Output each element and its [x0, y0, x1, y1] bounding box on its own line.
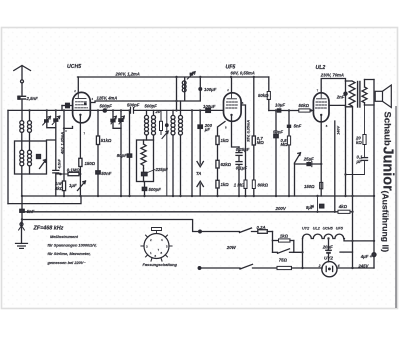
svg-text:ZF=468 kHz: ZF=468 kHz — [33, 225, 64, 231]
wire UL2 pin right down — [334, 121, 336, 212]
wire UF5 cathode chain x217.5 — [218, 122, 226, 197]
svg-text:8μF: 8μF — [306, 205, 314, 210]
capacitor 500pF series in grid line — [103, 108, 108, 113]
svg-text:1kΩ: 1kΩ — [221, 138, 230, 143]
svg-text:1μF: 1μF — [69, 183, 77, 188]
fuse 0.2A — [258, 230, 273, 234]
wire UY2 cathode right — [337, 267, 374, 269]
svg-text:500pF: 500pF — [127, 102, 140, 107]
wire UF5 bottom to tone caps — [232, 115, 240, 147]
resistor 150 Ohm UL2 cathode — [320, 182, 323, 188]
ground bus y196 — [22, 195, 374, 197]
output transformer secondary zigzag — [362, 80, 367, 106]
svg-text:0,1MΩ: 0,1MΩ — [67, 167, 81, 172]
wires IFT2 — [173, 77, 181, 196]
resistor 20k vertical — [363, 104, 366, 145]
variable capacitor gang C1 — [110, 110, 121, 128]
svg-text:80kΩ: 80kΩ — [258, 182, 269, 187]
tube UF5 envelope — [224, 93, 242, 122]
svg-text:UF5: UF5 — [336, 226, 344, 230]
svg-text:Fassungschaltung: Fassungschaltung — [143, 262, 178, 267]
resistor 51k on x98 — [96, 136, 99, 145]
resistor 50k horizontal — [299, 109, 310, 112]
svg-text:50nF: 50nF — [101, 171, 111, 176]
svg-text:230V, 70mA: 230V, 70mA — [320, 72, 344, 77]
IF can box — [137, 140, 154, 182]
wire x287.5 vertical with resistor 0.8M — [287, 111, 291, 197]
wire x345.5 down — [345, 107, 347, 196]
inductor antenna coil winding 2 — [28, 121, 32, 133]
svg-text:2: 2 — [318, 264, 321, 268]
IF windings pair A — [145, 115, 149, 135]
inductor antenna coil winding 1 — [20, 121, 24, 133]
capacitor 4nF blob x166.8 — [165, 110, 169, 196]
ground bus y203.6 — [8, 196, 81, 204]
wire x129.5 vertical — [131, 110, 133, 113]
wire right rail x374 — [373, 80, 375, 269]
svg-text:0,1μF: 0,1μF — [236, 165, 248, 170]
svg-text:150Ω: 150Ω — [85, 161, 96, 166]
wire UL2 anode riser and 230V bus — [321, 79, 345, 94]
tube UL2 internals — [316, 93, 328, 116]
svg-text:4kΩ: 4kΩ — [54, 186, 64, 191]
anode tank loop — [177, 72, 203, 101]
wire coil bottoms into box — [22, 132, 30, 150]
svg-text:0,25μF: 0,25μF — [236, 147, 250, 152]
svg-text:50kΩ: 50kΩ — [258, 93, 269, 98]
mains bottom wire — [198, 267, 240, 270]
wires windings A to box — [147, 110, 154, 140]
potentiometer arrow — [78, 181, 86, 191]
svg-text:51kΩ: 51kΩ — [101, 138, 112, 143]
svg-text:TA: TA — [196, 171, 201, 176]
capacitor 10uF electrolytic — [277, 108, 282, 112]
svg-text:UY2: UY2 — [302, 226, 310, 230]
svg-text:100μF: 100μF — [204, 87, 217, 92]
resistor 150 Ohm on x81 — [79, 158, 82, 166]
resistor 62k — [216, 160, 219, 168]
oscillator coil shield box — [15, 141, 47, 174]
trimmer capacitor T1 — [43, 110, 56, 127]
tube pin numbers — [74, 88, 328, 136]
svg-text:62kΩ: 62kΩ — [221, 162, 232, 167]
wire UF5 anode riser — [231, 77, 233, 93]
svg-text:25μF: 25μF — [303, 157, 314, 162]
resistor oval lower on x253.8 — [252, 180, 255, 189]
core slug — [37, 155, 41, 159]
svg-text:500pF: 500pF — [145, 104, 158, 109]
svg-text:5nF: 5nF — [27, 209, 35, 214]
svg-text:für Spannungen 10000Ω/V,: für Spannungen 10000Ω/V, — [48, 243, 97, 248]
capacitor 5nF blob left — [20, 209, 24, 212]
svg-text:MΩ: MΩ — [257, 140, 265, 145]
mains switch top blade — [240, 228, 258, 233]
svg-text:gemessen bei 220V~: gemessen bei 220V~ — [47, 260, 87, 265]
svg-text:2,5nF: 2,5nF — [26, 96, 39, 101]
wire left rail — [7, 110, 9, 203]
svg-text:200V: 200V — [275, 206, 287, 211]
wire grid line y110.4 — [8, 109, 223, 111]
svg-text:Meßinstrument: Meßinstrument — [50, 234, 79, 239]
ground bus y219.5 — [24, 220, 201, 232]
wire x246.5 vertical with resistor oval — [241, 105, 247, 196]
resistor 4k vertical small — [62, 181, 65, 191]
svg-text:4kΩ: 4kΩ — [338, 204, 348, 209]
wire below IF box with 500pF blob — [142, 182, 146, 197]
svg-text:kΩ: kΩ — [356, 140, 362, 145]
tube UCH5 internals — [75, 93, 88, 116]
tone switch blade — [295, 153, 301, 196]
svg-text:10μF: 10μF — [275, 103, 285, 108]
svg-text:125V, 4mA: 125V, 4mA — [97, 95, 118, 100]
resistor vertical x161 — [160, 110, 169, 138]
heater labels UY2 UL2 UCH5 UF5 — [302, 226, 344, 230]
trimmer capacitor T2 — [47, 110, 61, 196]
svg-text:200V, 1,2mA: 200V, 1,2mA — [115, 72, 140, 77]
svg-text:Junior: Junior — [380, 147, 396, 192]
svg-text:75Ω: 75Ω — [279, 257, 288, 262]
socket pin numbers — [146, 238, 168, 258]
resistor 75 Ohm — [277, 266, 322, 269]
svg-text:100μF: 100μF — [203, 104, 216, 109]
tube UL2 envelope — [313, 93, 329, 122]
wire antenna down — [21, 83, 23, 96]
wire UL2 grid line y110.5 — [269, 110, 314, 112]
svg-text:245V: 245V — [357, 263, 369, 268]
wire ground drop left — [21, 196, 23, 222]
capacitor 2nF stub — [329, 81, 347, 107]
resistor 4k on bus — [338, 210, 350, 213]
svg-text:4: 4 — [337, 264, 340, 268]
svg-text:500pF: 500pF — [149, 187, 162, 192]
svg-text:2nF: 2nF — [336, 95, 345, 100]
capacitor 100uF blob on grid line — [206, 108, 211, 112]
wire UL2 cathode down — [320, 115, 322, 196]
anode bus 200V y77 — [78, 76, 269, 78]
wire fuse to dropper — [272, 232, 274, 241]
svg-text:35V, 0,35mA: 35V, 0,35mA — [247, 120, 251, 142]
capacitor 0.25uF — [236, 147, 242, 161]
svg-text:225pF: 225pF — [155, 167, 169, 172]
inductor tank coil bumps — [182, 81, 186, 92]
svg-text:50kΩ: 50kΩ — [299, 103, 310, 108]
capacitor 20uF — [326, 239, 331, 262]
inductor oscillator winding 1 — [20, 150, 24, 166]
wire secondary to speaker — [365, 80, 375, 106]
TA pickup jack — [197, 162, 203, 197]
svg-text:50pF: 50pF — [273, 130, 283, 135]
wire UCH5 triode grid pin to x66 — [64, 110, 73, 196]
capacitor 500pF second series — [130, 108, 134, 114]
wire UCH5 hexode anode 125V line — [90, 101, 176, 103]
svg-text:4μF +: 4μF + — [360, 254, 373, 259]
capacitor 50nF blob on x98 — [96, 171, 100, 174]
svg-text:UCH5: UCH5 — [323, 226, 334, 230]
svg-text:20: 20 — [155, 109, 161, 114]
wire UCH5 anode riser — [77, 77, 79, 93]
wire x192 vertical — [191, 110, 193, 196]
dropper resistor 1k with bypass switch — [273, 239, 294, 253]
mains top wire — [199, 230, 240, 233]
svg-text:5nF: 5nF — [294, 124, 302, 129]
page fold dark edge right — [395, 106, 397, 308]
capacitor 80pF blob on x129.5 — [127, 154, 131, 157]
svg-text:UL2: UL2 — [313, 226, 321, 230]
tube UCH5 envelope — [73, 92, 91, 122]
svg-text:20μF: 20μF — [322, 245, 333, 250]
resistor 0.1M horizontal — [56, 172, 81, 175]
wire coil bottoms to bus — [22, 166, 30, 196]
transformer core — [358, 82, 360, 108]
ground symbol — [16, 222, 28, 248]
svg-text:150Ω: 150Ω — [304, 184, 315, 189]
svg-text:Schaub: Schaub — [382, 112, 393, 147]
svg-text:μF: μF — [356, 159, 363, 164]
antenna — [14, 66, 31, 83]
capacitor 225pF in box — [142, 169, 156, 182]
rotated label wire 40V — [65, 130, 67, 132]
resistor 1k lower — [216, 180, 219, 188]
svg-text:(Ausführung II): (Ausführung II) — [381, 191, 391, 253]
wire x276 vertical with capacitor 50pF — [274, 111, 278, 197]
wire coil2 top to grid line — [29, 110, 31, 120]
wire x268.8 riser with resistor 50k — [267, 77, 270, 111]
resistor 1k — [216, 136, 219, 145]
wire x253.8 vertical from bus — [253, 77, 255, 196]
resistor 0.7M — [252, 136, 255, 145]
wire antenna cap to coil — [21, 99, 23, 120]
wire UCH5 cathode down x81 — [79, 115, 81, 196]
svg-text:für Ströme, Mavometer,: für Ströme, Mavometer, — [48, 251, 91, 256]
svg-text:1kΩ: 1kΩ — [221, 182, 230, 187]
svg-text:μF: μF — [204, 127, 211, 132]
svg-text:60V, 0,55mA: 60V, 0,55mA — [231, 71, 255, 76]
capacitor 200uF branch — [198, 110, 202, 164]
capacitor 0.1uF — [236, 162, 242, 196]
inductor IF coil zigzag in box — [141, 140, 146, 169]
capacitor 8uF electrolytic on cathode — [311, 196, 324, 212]
mains switch bottom blade — [240, 264, 277, 269]
svg-text:1kΩ: 1kΩ — [280, 233, 289, 238]
variable capacitor gang C2 — [118, 110, 124, 196]
tube socket diagram — [141, 228, 172, 262]
wire x98 vertical — [97, 110, 99, 196]
svg-text:1 MΩ: 1 MΩ — [234, 182, 245, 187]
ground bus y211.8 — [21, 211, 353, 213]
svg-text:140V: 140V — [337, 125, 341, 134]
capacitor 25uF cathode bypass — [295, 161, 322, 166]
svg-text:0,2A: 0,2A — [257, 225, 266, 230]
trimmer arrow in box — [40, 160, 47, 169]
svg-text:UY2: UY2 — [324, 256, 333, 261]
svg-text:UCH5: UCH5 — [67, 64, 81, 70]
svg-text:MΩ: MΩ — [281, 142, 289, 147]
svg-text:UF5: UF5 — [226, 65, 236, 71]
tube UF5 internals — [226, 93, 238, 116]
svg-text:80pF: 80pF — [117, 153, 127, 158]
tube UY2 rectifier — [322, 262, 337, 277]
svg-text:500pF: 500pF — [100, 104, 113, 109]
wire y241.4 to right rail — [340, 251, 353, 253]
capacitor 2,5nF — [17, 96, 25, 100]
output transformer primary zigzag — [346, 81, 356, 107]
inductor oscillator winding 2 — [28, 150, 32, 166]
svg-text:20W: 20W — [226, 245, 237, 250]
speaker — [375, 85, 391, 108]
svg-text:UL2: UL2 — [316, 65, 326, 71]
svg-text:4,5nF: 4,5nF — [57, 158, 61, 169]
wire x352.5 rail — [352, 107, 354, 268]
capacitor 4uF electrolytic on rail — [372, 253, 376, 257]
capacitor 0.1uF right — [346, 145, 368, 175]
wire UCH5 grid cap left — [62, 103, 73, 110]
IF transformer 2 windings — [171, 115, 175, 135]
svg-text:40V, 1,35mA: 40V, 1,35mA — [61, 132, 65, 155]
heater chain bumps — [303, 234, 375, 241]
wire dropper to heater node — [294, 239, 303, 269]
